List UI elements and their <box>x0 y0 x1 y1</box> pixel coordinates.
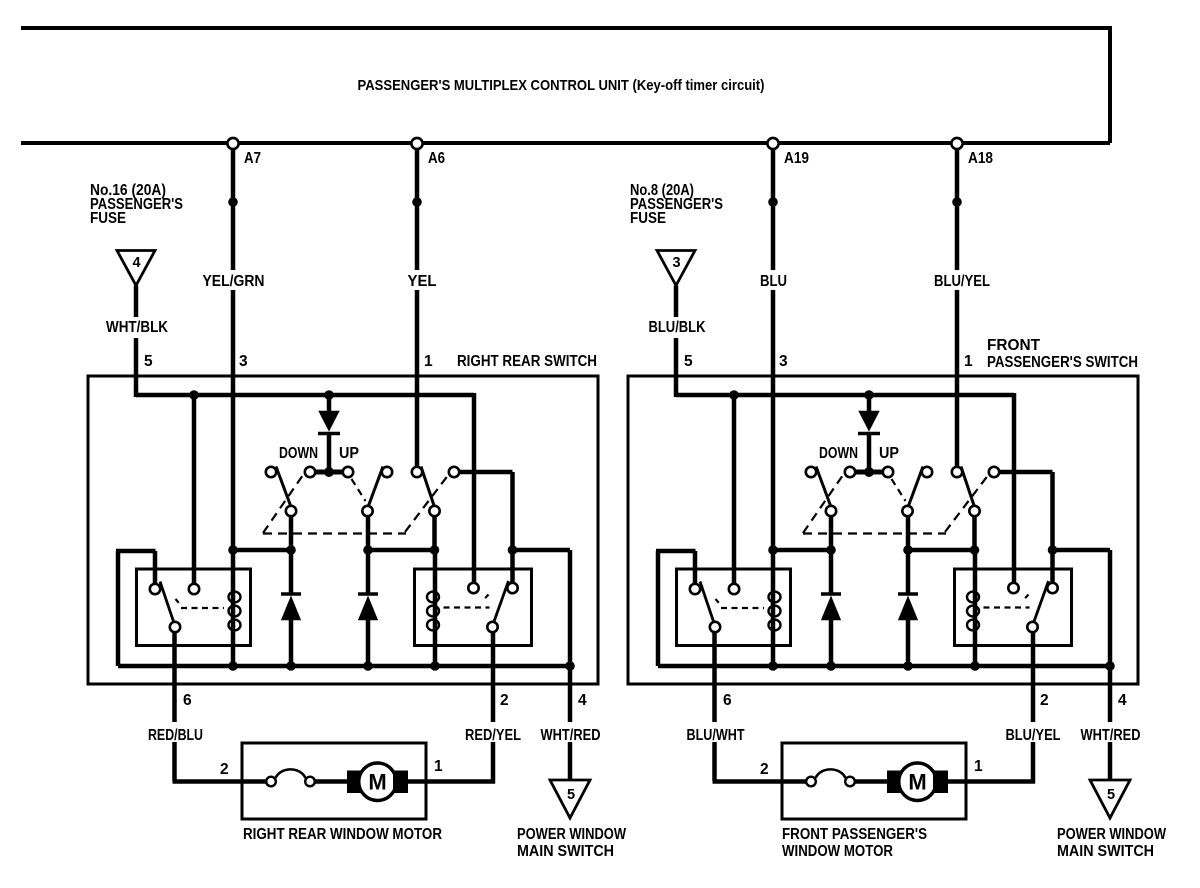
relay blade <box>160 582 174 622</box>
wire coil link <box>368 548 435 553</box>
svg-text:MAIN SWITCH: MAIN SWITCH <box>517 843 614 860</box>
junction <box>430 661 440 671</box>
relay linkage (dashed) <box>483 595 489 601</box>
connector pin A7 <box>227 138 238 149</box>
svg-text:WHT/RED: WHT/RED <box>541 727 601 744</box>
wire AUTO contact to relay <box>999 470 1052 475</box>
junction <box>228 197 238 207</box>
diode (DOWN clamp) <box>821 592 841 596</box>
relay blade <box>1034 581 1049 622</box>
passenger's multiplex control unit (box outline bottom) <box>21 141 1110 145</box>
svg-text:UP: UP <box>339 445 359 462</box>
relay (UP) box <box>415 569 532 646</box>
svg-text:FRONT PASSENGER'S: FRONT PASSENGER'S <box>782 826 927 843</box>
switch contact (pin 1 feed) <box>412 467 422 477</box>
relay contact (common) <box>710 622 720 632</box>
switch contact (UP common) <box>902 506 912 516</box>
junction <box>903 661 913 671</box>
circuit breaker <box>806 777 816 787</box>
wire WHT/BLK from fuse to switch pin 5 <box>134 286 139 318</box>
junction <box>363 661 373 671</box>
svg-text:PASSENGER'S SWITCH: PASSENGER'S SWITCH <box>987 354 1138 371</box>
connector pin A19 <box>767 138 778 149</box>
diode (UP clamp) <box>358 592 378 596</box>
svg-text:3: 3 <box>672 255 680 271</box>
junction <box>324 390 334 400</box>
relay contact <box>729 584 739 594</box>
svg-text:FUSE: FUSE <box>90 210 126 227</box>
junction <box>286 545 296 555</box>
wire <box>1050 472 1055 583</box>
switch blade UP <box>369 467 383 506</box>
wire YEL/GRN from pin A7 <box>231 149 236 270</box>
relay contact (common) <box>1027 622 1037 632</box>
svg-text:2: 2 <box>220 761 229 778</box>
RIGHT REAR WINDOW MOTOR (box outline) <box>242 743 426 819</box>
wire internal bus <box>118 664 570 669</box>
switch contact (UP feed) <box>343 467 353 477</box>
switch contact (DOWN NO) <box>266 467 276 477</box>
relay blade <box>494 581 509 622</box>
relay contact <box>1008 583 1018 593</box>
diode (UP clamp) <box>898 592 918 596</box>
svg-text:A18: A18 <box>968 150 993 167</box>
svg-text:M: M <box>368 770 386 795</box>
relay (DOWN) box <box>137 569 251 646</box>
junction <box>508 545 518 555</box>
junction <box>324 467 334 477</box>
svg-text:2: 2 <box>760 761 769 778</box>
wire bus riser <box>116 551 121 666</box>
junction <box>286 661 296 671</box>
svg-text:5: 5 <box>567 787 575 803</box>
svg-text:WHT/BLK: WHT/BLK <box>106 319 169 336</box>
relay coil (UP) <box>973 550 978 666</box>
switch actuator linkage (dashed) <box>263 475 303 533</box>
wire YEL from pin A6 <box>415 149 420 270</box>
svg-text:1: 1 <box>964 353 973 370</box>
svg-text:YEL: YEL <box>408 273 437 290</box>
motor M <box>887 771 902 794</box>
wire <box>513 548 571 553</box>
junction <box>1048 545 1058 555</box>
switch contact (DOWN feed) <box>845 467 855 477</box>
junction <box>729 390 739 400</box>
svg-text:4: 4 <box>1118 692 1127 709</box>
wire breaker to motor <box>315 779 348 784</box>
switch contact (AUTO) <box>449 467 459 477</box>
svg-text:1: 1 <box>434 758 443 775</box>
switch contact (DOWN NO) <box>806 467 816 477</box>
relay linkage (dashed) <box>1023 595 1029 601</box>
wire pin 5 internal rail <box>676 393 1014 398</box>
svg-text:A19: A19 <box>784 150 809 167</box>
passenger's multiplex control unit (box outline right) <box>1108 26 1112 143</box>
junction <box>864 467 874 477</box>
wire coil link <box>908 548 975 553</box>
junction <box>970 545 980 555</box>
svg-text:WINDOW MOTOR: WINDOW MOTOR <box>782 843 893 860</box>
wire UP common branch <box>366 516 371 594</box>
svg-text:1: 1 <box>424 353 433 370</box>
switch contact (DOWN common) <box>826 506 836 516</box>
passenger's multiplex control unit (box outline top) <box>21 26 1110 30</box>
svg-text:WHT/RED: WHT/RED <box>1081 727 1141 744</box>
junction <box>228 661 238 671</box>
rocker common bar <box>315 470 343 475</box>
switch contact (AUTO common) <box>969 506 979 516</box>
svg-text:MAIN SWITCH: MAIN SWITCH <box>1057 843 1154 860</box>
switch contact (AUTO) <box>989 467 999 477</box>
relay contact <box>150 584 160 594</box>
svg-text:4: 4 <box>578 692 587 709</box>
wire breaker to motor <box>855 779 888 784</box>
svg-text:BLU/BLK: BLU/BLK <box>649 319 707 336</box>
svg-text:BLU/YEL: BLU/YEL <box>934 273 990 290</box>
relay coil (DOWN) <box>771 550 776 666</box>
junction <box>864 390 874 400</box>
relay coil (UP) <box>433 550 438 666</box>
junction <box>768 661 778 671</box>
relay contact (common) <box>487 622 497 632</box>
diode (rocker feed) <box>867 395 872 412</box>
svg-text:2: 2 <box>1040 692 1049 709</box>
wire to relay contact <box>732 395 737 584</box>
relay contact <box>468 583 478 593</box>
svg-text:M: M <box>908 770 926 795</box>
relay linkage (dashed) <box>716 599 722 606</box>
wire AUTO common to relay coil <box>972 516 977 550</box>
switch contact (pin 1 feed) <box>952 467 962 477</box>
svg-text:A7: A7 <box>244 150 261 167</box>
wire pin 4 WHT/RED to power window main switch <box>568 666 573 722</box>
svg-text:DOWN: DOWN <box>279 445 318 462</box>
junction <box>970 661 980 671</box>
wire to relay contact <box>192 395 197 584</box>
connector pin A18 <box>951 138 962 149</box>
switch contact (DOWN common) <box>286 506 296 516</box>
svg-text:6: 6 <box>183 692 192 709</box>
wire rail to relay contact <box>472 393 477 583</box>
connector symbol 3 (fuse feed) <box>657 251 695 286</box>
svg-text:BLU: BLU <box>760 273 787 290</box>
wire DOWN common branch <box>289 516 294 594</box>
connector pin A6 <box>411 138 422 149</box>
switch blade AUTO <box>421 467 434 506</box>
svg-text:PASSENGER'S MULTIPLEX CONTROL: PASSENGER'S MULTIPLEX CONTROL UNIT (Key-… <box>358 77 765 94</box>
svg-text:FRONT: FRONT <box>987 337 1041 354</box>
svg-text:6: 6 <box>723 692 732 709</box>
switch contact (AUTO common) <box>429 506 439 516</box>
relay contact <box>1047 583 1057 593</box>
svg-text:BLU/YEL: BLU/YEL <box>1006 727 1061 744</box>
switch contact (UP common) <box>362 506 372 516</box>
junction <box>228 545 238 555</box>
wire pin 6 RED/BLU to motor <box>172 632 177 722</box>
switch contact (UP NO) <box>382 467 392 477</box>
wire to pin 4 <box>1108 550 1113 666</box>
wire pin 5 internal rail <box>136 393 474 398</box>
junction <box>768 545 778 555</box>
svg-text:RED/BLU: RED/BLU <box>148 727 203 744</box>
svg-text:YEL/GRN: YEL/GRN <box>203 273 265 290</box>
relay contact <box>690 584 700 594</box>
wire <box>510 472 515 583</box>
svg-text:RIGHT REAR SWITCH: RIGHT REAR SWITCH <box>457 353 597 370</box>
junction <box>363 545 373 555</box>
wire internal bus <box>658 664 1110 669</box>
wire DOWN common branch <box>829 516 834 594</box>
junction <box>412 197 422 207</box>
junction <box>565 661 575 671</box>
FRONT PASSENGER'S SWITCH (box outline) <box>628 376 1138 684</box>
svg-text:5: 5 <box>684 353 693 370</box>
wire pin 4 WHT/RED to power window main switch <box>1108 666 1113 722</box>
junction <box>903 545 913 555</box>
diode (rocker feed) <box>327 395 332 412</box>
svg-text:2: 2 <box>500 692 509 709</box>
wire coil link <box>233 548 291 553</box>
relay (DOWN) box <box>677 569 791 646</box>
switch blade UP <box>909 467 923 506</box>
relay contact <box>189 584 199 594</box>
svg-text:UP: UP <box>879 445 899 462</box>
switch actuator linkage (dashed) <box>803 475 843 533</box>
wire UP common branch <box>906 516 911 594</box>
wire <box>1053 548 1111 553</box>
wire pin 2 BLU/YEL to motor <box>1031 632 1036 722</box>
junction <box>189 390 199 400</box>
relay blade <box>700 582 714 622</box>
wire BLU/YEL from pin A18 <box>955 149 960 270</box>
svg-text:DOWN: DOWN <box>819 445 858 462</box>
relay linkage (dashed) <box>176 599 182 606</box>
diode (DOWN clamp) <box>281 592 301 596</box>
wire AUTO contact to relay <box>459 470 512 475</box>
relay contact (common) <box>170 622 180 632</box>
junction <box>826 661 836 671</box>
relay coil (DOWN) <box>231 550 236 666</box>
wire pin 2 RED/YEL to motor <box>491 632 496 722</box>
svg-text:POWER WINDOW: POWER WINDOW <box>1057 826 1166 843</box>
junction <box>952 197 962 207</box>
svg-text:1: 1 <box>974 758 983 775</box>
wire BLU/BLK from fuse to switch pin 5 <box>674 286 679 318</box>
svg-text:POWER WINDOW: POWER WINDOW <box>517 826 626 843</box>
motor M <box>347 771 362 794</box>
svg-text:BLU/WHT: BLU/WHT <box>687 727 745 744</box>
svg-text:RIGHT REAR WINDOW MOTOR: RIGHT REAR WINDOW MOTOR <box>243 826 442 843</box>
switch contact (UP feed) <box>883 467 893 477</box>
svg-text:4: 4 <box>132 255 140 271</box>
wire AUTO common to relay coil <box>432 516 437 550</box>
switch blade DOWN <box>816 467 831 506</box>
FRONT PASSENGER'S WINDOW MOTOR (box outline) <box>782 743 966 819</box>
switch blade DOWN <box>276 467 291 506</box>
svg-text:3: 3 <box>239 353 248 370</box>
svg-text:5: 5 <box>144 353 153 370</box>
connector symbol 5 (power window main switch) <box>550 780 590 818</box>
svg-text:FUSE: FUSE <box>630 210 666 227</box>
switch blade AUTO <box>961 467 974 506</box>
junction <box>826 545 836 555</box>
svg-text:5: 5 <box>1107 787 1115 803</box>
wire bus riser <box>656 551 661 666</box>
switch contact (UP NO) <box>922 467 932 477</box>
wire pin 6 BLU/WHT to motor <box>712 632 717 722</box>
rocker common bar <box>855 470 883 475</box>
circuit breaker <box>266 777 276 787</box>
wire rail to relay contact <box>1012 393 1017 583</box>
junction <box>768 197 778 207</box>
switch contact (DOWN feed) <box>305 467 315 477</box>
connector symbol 4 (fuse feed) <box>117 251 155 286</box>
svg-text:3: 3 <box>779 353 788 370</box>
svg-text:A6: A6 <box>428 150 445 167</box>
junction <box>430 545 440 555</box>
relay (UP) box <box>955 569 1072 646</box>
wire coil link <box>773 548 831 553</box>
junction <box>1105 661 1115 671</box>
connector symbol 5 (power window main switch) <box>1090 780 1130 818</box>
wire BLU from pin A19 <box>771 149 776 270</box>
relay contact <box>507 583 517 593</box>
svg-text:RED/YEL: RED/YEL <box>465 727 521 744</box>
wire to pin 4 <box>568 550 573 666</box>
RIGHT REAR SWITCH (box outline) <box>88 376 598 684</box>
